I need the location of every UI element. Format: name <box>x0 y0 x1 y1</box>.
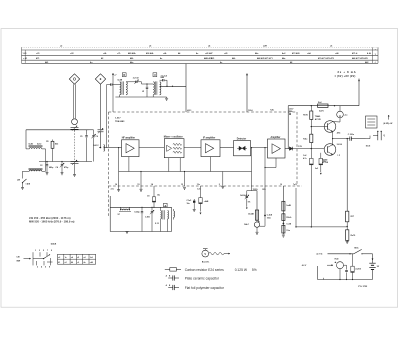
ground below C2 <box>46 172 49 174</box>
svg-text:+41 447: +41 447 <box>205 52 213 55</box>
wire TP2 trimmer down to pin1 node <box>100 132 102 148</box>
svg-text:LW: LW <box>17 257 20 259</box>
svg-text:R4u7: R4u7 <box>244 223 248 226</box>
svg-text:a2: a2 <box>58 257 60 259</box>
node at variable capacitor <box>74 129 75 130</box>
wire IF amplifier to detector <box>220 147 234 149</box>
wire pin 12 from signal line <box>264 148 266 186</box>
wire switch to battery <box>362 253 373 255</box>
svg-text:446 477-478 476: 446 477-478 476 <box>352 57 369 60</box>
svg-text:44: 44 <box>71 261 73 264</box>
svg-text:S7: S7 <box>118 214 120 216</box>
svg-text:W: W <box>142 91 144 93</box>
trimmer R7 <box>246 195 249 197</box>
alignment table box <box>58 254 96 264</box>
svg-text:9: 9 <box>51 250 52 252</box>
oscillator transformer S8 core <box>162 210 164 219</box>
svg-text:2x + 8 mA: 2x + 8 mA <box>338 70 357 74</box>
svg-text:C6: C6 <box>96 136 98 138</box>
boxed reference B <box>122 73 126 77</box>
oscillator padder C5 <box>86 130 88 135</box>
supply arrow above pin 5 <box>246 74 247 76</box>
svg-text:2.1v: 2.1v <box>111 189 115 191</box>
wire rail down to amplifier output node <box>287 106 289 149</box>
wire internal lower bus <box>119 171 252 173</box>
svg-text:C.4uB: C.4uB <box>267 213 273 216</box>
wire R15 to AF line <box>310 143 312 149</box>
ground below pin 13 <box>183 186 186 188</box>
IF transformer S5 windings <box>120 82 121 95</box>
ground below pin10 branch <box>282 234 285 236</box>
resistor R10 on pin10 branch <box>282 201 285 211</box>
wire S6 bottom to ground rail <box>166 86 168 97</box>
bus row line 2 <box>22 54 379 56</box>
wire oscillator feed from bus <box>185 64 187 112</box>
transistor T1 driver <box>324 121 336 133</box>
svg-text:1%u: 1%u <box>286 230 290 232</box>
wire pin 7 branch down <box>295 188 297 227</box>
legend resistor symbol <box>165 268 170 270</box>
wire base node to driver transistor <box>311 126 324 128</box>
svg-text:5u4B: 5u4B <box>286 204 291 207</box>
svg-text:7u%: 7u% <box>293 184 297 186</box>
wire +7 feed vertical <box>112 73 114 112</box>
wire transformer S5 top out <box>126 81 131 83</box>
wire T1 emitter down to T2 collector <box>332 132 334 146</box>
wire output node <box>333 138 350 140</box>
arrow below C18 <box>320 173 321 175</box>
svg-text:2: 2 <box>37 267 38 269</box>
svg-text:C1u5: C1u5 <box>187 200 192 202</box>
resistor R11 on pin10 branch <box>282 214 285 221</box>
svg-text:7u8s: 7u8s <box>270 109 274 111</box>
svg-text:4u: 4u <box>84 261 86 264</box>
diode D1 at pin 9 <box>289 147 292 151</box>
wire supply rail <box>288 105 359 107</box>
IF transformer S5 core <box>121 81 123 94</box>
svg-text:TDA1083: TDA1083 <box>115 120 125 123</box>
svg-text:8k2: 8k2 <box>55 144 58 146</box>
svg-text:1/4.1V: 1/4.1V <box>93 144 99 147</box>
switch wafer diagram lines <box>32 252 34 265</box>
electrolytic C14 at pin 11 <box>200 186 202 198</box>
legend current arrow symbol <box>203 248 208 250</box>
test point diamond TP2 <box>95 74 105 84</box>
svg-text:Amplifier: Amplifier <box>271 136 281 139</box>
wiring harness bus top dotted rule <box>22 46 379 48</box>
svg-text:2u2/10: 2u2/10 <box>355 268 361 270</box>
node driver base divider <box>311 126 312 127</box>
trimmer C13 400p <box>151 207 153 211</box>
wire lower bus drop to pin 16 <box>118 172 120 187</box>
svg-text:Mixer + oscillator: Mixer + oscillator <box>164 136 183 139</box>
svg-text:AC125: AC125 <box>315 118 321 121</box>
pin 9 mark <box>289 113 291 115</box>
svg-text:5u2%: 5u2% <box>319 111 324 113</box>
electrolytic C17 on AF line <box>310 149 312 159</box>
ground at pin 2 <box>222 184 224 186</box>
svg-text:C=60p: C=60p <box>134 212 140 214</box>
oscillator coil S7 on mid rail <box>119 207 121 210</box>
svg-text:5u45: 5u45 <box>29 143 33 146</box>
svg-text:Plate ceramic capacitor: Plate ceramic capacitor <box>185 276 220 280</box>
tuning gang mechanical link dashed <box>74 131 76 161</box>
ground below switch <box>21 187 24 189</box>
svg-text:10u: 10u <box>323 161 326 163</box>
arrow below C14 <box>200 213 201 215</box>
svg-text:4 4L: 4 4L <box>367 52 372 55</box>
bus row line 4 bottom <box>22 62 379 64</box>
variable capacitor C1a rotor circle <box>72 119 78 125</box>
svg-text:c4: c4 <box>71 256 73 259</box>
wire pin 10 branch down <box>282 186 284 234</box>
resistor R15 lower divider <box>310 134 313 142</box>
battery BT1 <box>369 262 375 264</box>
svg-text:Ru79: Ru79 <box>351 235 356 237</box>
svg-text:4/2.1: 4/2.1 <box>187 109 191 112</box>
ferrite rod core lines over S1 <box>29 145 43 147</box>
wire left drop to coil S1 <box>25 130 27 149</box>
amplifier feedback wire <box>275 158 277 168</box>
svg-text:3: 3 <box>39 250 40 252</box>
aerial coil S1 <box>29 148 42 149</box>
IC dashed boundary bottom <box>109 185 303 187</box>
svg-text:100n: 100n <box>267 218 271 220</box>
svg-text:C2: C2 <box>40 165 42 167</box>
earphone plug contacts <box>377 131 379 140</box>
arrows into transducer <box>335 262 336 263</box>
svg-text:+4dB: +4dB <box>204 200 209 203</box>
svg-text:16u: 16u <box>157 195 160 197</box>
variable capacitor C1b plates <box>71 161 79 163</box>
oscillator transformer S8 tertiary winding <box>174 211 175 217</box>
wire AF takeoff horizontal <box>296 226 347 228</box>
capacitor C9 vertical <box>146 84 148 86</box>
IC TDA1083 dashed boundary top <box>109 111 298 113</box>
svg-text:LW 150 - 255 kHz (2000 - 1: LW 150 - 255 kHz (2000 - 1176 m) <box>29 216 71 220</box>
svg-text:C.400: C.400 <box>145 216 150 219</box>
svg-text:R17: R17 <box>351 216 354 218</box>
wire shield loop left vertical <box>109 196 111 232</box>
arrow below trimmer R7 <box>246 208 247 209</box>
wire switch to ground <box>22 183 24 188</box>
ground rail under input filter <box>115 96 166 98</box>
oscillator transformer S8 windings <box>161 211 162 219</box>
block U1d detector <box>234 141 251 156</box>
svg-text:471-4: 471-4 <box>352 52 358 55</box>
wire lower bus drop pin 15 <box>140 172 142 187</box>
wire R17 to R19 <box>346 222 348 230</box>
resistor R14 <box>310 111 313 119</box>
wire transducer right with capacitor C19 <box>344 264 347 266</box>
wire mixer left leg to lower bus <box>168 158 170 172</box>
boxed reference A <box>164 203 168 207</box>
wire R19 to ground <box>346 240 348 241</box>
ground below C14b <box>193 208 196 210</box>
wire TP2 lead down <box>100 84 102 129</box>
bus left cell divider <box>24 50 26 63</box>
wire supply feed from label <box>358 79 360 106</box>
earphone socket outline <box>366 116 378 128</box>
ground under input filter <box>166 97 168 98</box>
svg-text:7: 7 <box>47 250 48 252</box>
wire R9 to ground <box>256 227 258 232</box>
svg-text:4.7u: 4.7u <box>303 157 307 160</box>
svg-text:TDA: TDA <box>289 110 294 113</box>
ground below C1b <box>73 174 76 176</box>
rail junction nodes <box>311 105 312 106</box>
wire HF amp to mixer <box>139 147 164 149</box>
wire lower bus to pin 2 ground <box>222 172 224 185</box>
svg-text:e4: e4 <box>84 256 86 259</box>
trimmer C3 on TP2 lead <box>98 129 104 131</box>
svg-text:d1: d1 <box>77 257 79 259</box>
svg-text:1u6: 1u6 <box>90 257 93 259</box>
wire detector to amplifier <box>251 147 268 149</box>
oscillator trimmer C6 <box>93 130 95 135</box>
wire pin 13 drop with ground <box>184 172 186 187</box>
wire battery top <box>328 253 354 255</box>
wire HF amp bottom to lower bus <box>128 157 130 172</box>
wire S2 to rail <box>38 162 40 172</box>
wire IF amp bottom to lower bus <box>210 157 212 172</box>
svg-text:HF amplifier: HF amplifier <box>122 138 135 140</box>
current source symbol <box>339 106 341 112</box>
wire pin12 junction to potentiometer <box>264 216 266 227</box>
wire top rail to osc branch <box>89 129 94 131</box>
electrolytic C18 <box>320 153 322 159</box>
svg-text:480 48k: 480 48k <box>128 52 136 55</box>
range switch SK1b lead <box>23 170 27 172</box>
wire mixer right leg to lower bus <box>179 158 181 172</box>
block U1c IF amplifier <box>201 140 220 157</box>
svg-text:2.2÷22: 2.2÷22 <box>133 77 139 80</box>
wire transformer input <box>116 84 120 86</box>
svg-text:C9: C9 <box>147 196 149 198</box>
svg-text:V: V <box>204 252 206 256</box>
svg-text:u1: u1 <box>77 262 79 264</box>
wire aerial top horizontal <box>26 129 89 131</box>
transistor T2 output <box>324 144 336 156</box>
test point diamond TP1 <box>69 74 79 84</box>
wire pin 11 through boundary <box>251 172 253 191</box>
svg-text:Flat foil polyester capacitor: Flat foil polyester capacitor <box>185 286 225 290</box>
svg-text:C5: C5 <box>80 136 82 138</box>
resistor R1 vertical <box>52 140 54 142</box>
bus row line 1 <box>22 49 379 51</box>
svg-text:Carbon resistor E24 series: Carbon resistor E24 series <box>185 268 224 272</box>
svg-text:16: 16 <box>115 184 117 186</box>
svg-text:R175: R175 <box>303 114 308 116</box>
svg-text:(2.7 V): (2.7 V) <box>317 253 323 255</box>
potentiometer R9 volume <box>254 222 259 227</box>
transducer TM1 circle <box>337 262 344 269</box>
coupling coil S3 to pin1 <box>104 145 105 152</box>
svg-text:LW: LW <box>17 180 20 182</box>
svg-text:R=1MuB: R=1MuB <box>240 195 248 197</box>
svg-text:5u12: 5u12 <box>37 144 41 146</box>
svg-text:5: 5 <box>43 250 44 252</box>
arrow into switch diagram <box>24 258 31 260</box>
svg-text:448 425 471 471: 448 425 471 471 <box>257 57 273 60</box>
wire diode through pin to driver base <box>293 148 325 150</box>
svg-text:L2R: L2R <box>263 46 267 48</box>
variable capacitor C1a plates <box>71 126 79 128</box>
capacitor C12 60p <box>141 207 143 211</box>
svg-text:R1: R1 <box>46 141 48 143</box>
wire shield loop right vertical <box>171 207 173 231</box>
wire pin 12 branch down <box>264 186 266 216</box>
svg-text:41: 41 <box>58 261 60 264</box>
svg-text:(4.5Ω) +W: (4.5Ω) +W <box>384 122 393 125</box>
wire C1b to ground <box>74 164 76 175</box>
bus row line 3 <box>22 59 379 61</box>
ground below C4 <box>61 172 64 174</box>
capacitor C7 input coupling <box>107 84 111 86</box>
resistor R8 vertical <box>255 210 258 220</box>
wire battery to bottom rail <box>372 270 374 280</box>
IC dashed boundary right <box>296 112 298 186</box>
wire rail branch to R14 chain <box>310 106 312 111</box>
wire output node down to divider <box>346 139 348 212</box>
block U1a HF amplifier <box>122 140 140 157</box>
svg-text:13: 13 <box>181 184 183 186</box>
IC dashed boundary left <box>108 112 110 216</box>
svg-text:1 A/B: 1 A/B <box>26 183 31 186</box>
svg-text:10: 10 <box>280 184 282 186</box>
svg-text:C1uC4: C1uC4 <box>161 74 168 77</box>
wire TP1 double lead down <box>73 84 75 118</box>
ferrite rod core lines over S2 <box>29 167 43 169</box>
svg-text:5dB: 5dB <box>160 77 164 79</box>
node pin12 AF junction <box>264 215 266 217</box>
svg-text:6: 6 <box>45 267 46 269</box>
block U1b mixer plus oscillator <box>164 139 184 158</box>
wire left vertical <box>317 266 319 280</box>
aerial coil S2 longwave <box>29 170 42 171</box>
switch SK1a blade <box>354 249 362 253</box>
capacitor C2 680p <box>46 162 48 164</box>
svg-text:MW: MW <box>17 260 21 262</box>
svg-text:0.125 W: 0.125 W <box>235 268 248 272</box>
svg-text:5.6/14: 5.6/14 <box>337 143 342 146</box>
wire AGC feed vertical pin 5 <box>246 74 248 113</box>
capacitor C15 on pin10 branch <box>282 225 285 233</box>
capacitor C14b companion <box>193 199 195 201</box>
wire lower rail <box>39 161 92 163</box>
wire mid horizontal rail <box>110 206 171 208</box>
wire bottom rail <box>318 279 373 281</box>
ground below R9 <box>256 231 259 233</box>
ground below R19 <box>346 241 349 243</box>
svg-text:R5u%: R5u% <box>286 217 291 219</box>
wire to transformer S6 <box>147 83 153 85</box>
wire HF amp input branch down <box>118 148 120 172</box>
svg-text:u2: u2 <box>65 262 67 264</box>
resistor R19 <box>346 230 349 241</box>
svg-text:15: 15 <box>137 184 139 186</box>
wire T1 collector to current source <box>333 121 340 123</box>
svg-text:1: 1 <box>35 250 36 252</box>
node pin14 cap to rail <box>153 207 154 208</box>
IF transformer S6 windings <box>153 82 154 95</box>
wire S1 right leg down <box>45 149 47 162</box>
trimmer capacitor C4 <box>61 162 63 164</box>
svg-text:436 44L: 436 44L <box>146 52 154 55</box>
electrolytic C20 on switch branch <box>352 254 354 266</box>
svg-text:8: 8 <box>49 267 50 269</box>
svg-text:S.12: S.12 <box>155 223 159 225</box>
svg-text:Cu2: Cu2 <box>303 155 306 157</box>
svg-text:Ru2: Ru2 <box>318 102 322 104</box>
svg-text:Cu1B: Cu1B <box>286 224 291 226</box>
boxed reference U <box>153 73 157 77</box>
svg-text:u44: u44 <box>90 261 93 264</box>
svg-text:MW 520 - 1605 kHz (576.9 - 1: MW 520 - 1605 kHz (576.9 - 186.9 m) <box>29 220 75 224</box>
svg-text:YYL 3732: YYL 3732 <box>358 286 368 288</box>
IF transformer S6 core <box>155 81 157 94</box>
wire trimmer branch <box>247 190 257 192</box>
svg-text:+5u: +5u <box>344 115 347 117</box>
wire shield loop bottom <box>110 231 171 233</box>
svg-text:473 465: 473 465 <box>292 52 300 55</box>
svg-text:1.2v: 1.2v <box>197 189 201 191</box>
wire left feed down <box>106 85 108 148</box>
svg-text:1u: 1u <box>65 257 67 259</box>
wire pin 11 branch down <box>256 191 258 222</box>
electrolytic C11 from pin 14 <box>153 186 155 197</box>
wire pin1 to HF amplifier <box>109 147 122 149</box>
wire amplifier output to diode <box>285 148 289 150</box>
ground below pin 16 <box>117 189 120 191</box>
capacitor C16 output coupling <box>349 137 351 141</box>
svg-text:DA-B: DA-B <box>51 242 57 245</box>
svg-text:2: 2 <box>219 184 220 186</box>
wire transducer down <box>339 269 341 280</box>
svg-text:± (6V) +8V (9V): ± (6V) +8V (9V) <box>335 75 356 78</box>
wire detector output branch down <box>251 148 253 172</box>
svg-text:4.2 V: 4.2 V <box>302 264 307 267</box>
wire into IC pin 1 <box>104 147 109 149</box>
svg-text:2u2: 2u2 <box>315 168 318 170</box>
capacitor C10 top <box>160 79 163 81</box>
resistor R13 in supply rail <box>318 104 328 107</box>
supply arrow +7 into bus <box>112 73 113 75</box>
bus right end box column <box>372 47 374 63</box>
svg-text:1-617: 1-617 <box>115 118 121 120</box>
svg-text:Detector: Detector <box>237 138 246 141</box>
svg-text:5%: 5% <box>252 268 257 272</box>
ground on shield loop <box>126 231 129 233</box>
svg-text:12%: 12% <box>262 189 266 191</box>
svg-text:IF amplifier: IF amplifier <box>203 138 215 140</box>
resistor R17 <box>346 211 349 222</box>
svg-text:470-471 472-473: 470-471 472-473 <box>318 57 335 60</box>
svg-text:6u2B: 6u2B <box>118 80 123 82</box>
bottom rail ticks <box>339 279 340 280</box>
block U1e AF amplifier <box>268 139 286 158</box>
wire battery right vertical <box>372 254 374 263</box>
svg-text:4/14: 4/14 <box>337 131 341 134</box>
svg-text:B=mV/s: B=mV/s <box>202 261 210 263</box>
wires S8 to loop <box>160 219 162 232</box>
ground below pin 15 <box>140 188 143 190</box>
svg-text:T2449: T2449 <box>315 115 320 118</box>
svg-text:C5u4B: C5u4B <box>248 213 254 216</box>
svg-text:R.40: R.40 <box>335 258 339 261</box>
bus left end vertical <box>21 47 23 63</box>
wire S6 secondary out <box>160 85 186 87</box>
